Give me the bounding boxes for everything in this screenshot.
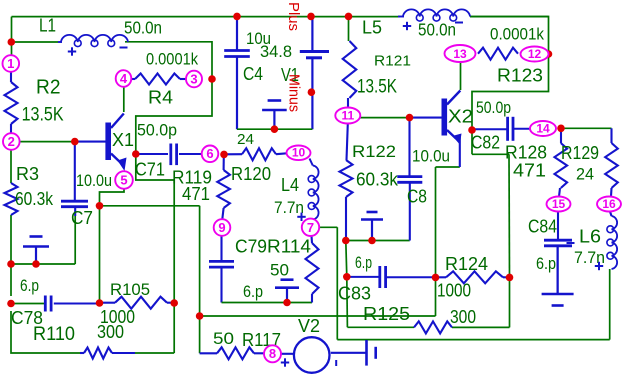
value 50 of R117: [213, 329, 234, 348]
wire mid row y206: [100, 205, 200, 207]
svg-text:34.8: 34.8: [260, 42, 292, 61]
svg-text:R121: R121: [374, 53, 411, 70]
svg-text:14: 14: [536, 121, 550, 135]
wire R3 to bottom left: [10, 215, 12, 296]
capacitor C83: [380, 266, 386, 288]
value 300 of R125: [450, 307, 476, 327]
svg-text:C79: C79: [235, 237, 267, 257]
capacitor C7: [61, 201, 88, 207]
junction dot 2: [71, 138, 79, 146]
svg-text:C82: C82: [471, 133, 500, 153]
junction dot 1: [8, 38, 16, 46]
wire R125 right: [452, 326, 510, 328]
wire R105 left lead: [100, 302, 116, 304]
svg-text:2: 2: [8, 134, 15, 149]
wire node8 to V2: [281, 353, 294, 355]
node 15: [547, 197, 571, 212]
wire x199 down: [199, 206, 201, 353]
junction dot 22: [432, 274, 440, 282]
label L5: [362, 18, 382, 38]
label R119: [172, 168, 212, 188]
polarity + of L6: [595, 262, 603, 270]
svg-text:R128: R128: [505, 143, 547, 163]
svg-text:X2: X2: [448, 107, 473, 127]
label C7: [71, 208, 93, 228]
svg-text:Minus: Minus: [286, 74, 303, 112]
wire node15 to C84: [557, 212, 559, 241]
wire R121 top lead: [348, 16, 350, 41]
svg-text:10.0u: 10.0u: [76, 171, 112, 190]
node 11: [335, 108, 360, 124]
value 50.0n of L5: [418, 20, 456, 40]
svg-text:6.p: 6.p: [536, 254, 556, 273]
wire bottom rail left: [135, 352, 174, 354]
wire base lead X1: [75, 141, 106, 143]
source V2: [294, 337, 330, 373]
wire node1 top lead: [10, 55, 12, 58]
junction dot 23: [506, 274, 514, 282]
junction dot 5: [7, 260, 15, 268]
junction dot 24: [406, 114, 414, 122]
junction dot 18: [271, 125, 279, 133]
wire C4 top stem: [236, 16, 238, 50]
junction dot 25: [468, 126, 476, 134]
svg-text:R4: R4: [148, 88, 173, 108]
label V1: [281, 65, 299, 85]
svg-text:L4: L4: [281, 175, 299, 195]
wire R120 right lead: [276, 152, 287, 155]
wire R114 top lead: [310, 236, 313, 243]
wire x99 down: [99, 206, 101, 303]
junction dot 7: [7, 300, 15, 308]
wire ground rail y264: [11, 263, 75, 265]
label C71: [135, 160, 165, 180]
polarity - of L6: [567, 242, 575, 244]
svg-text:C71: C71: [135, 160, 165, 180]
wire C78 left lead: [11, 303, 45, 305]
svg-text:6.p: 6.p: [243, 282, 263, 301]
svg-text:L6: L6: [579, 227, 601, 247]
wire node1-R2 lead: [10, 71, 12, 83]
svg-text:R110: R110: [33, 324, 75, 345]
resistor R4: [131, 74, 186, 85]
node 16: [597, 197, 621, 212]
label R120: [231, 164, 271, 184]
svg-text:C8: C8: [407, 187, 427, 207]
wire R110 left lead: [80, 352, 84, 354]
wire R124 right lead: [503, 276, 510, 278]
junction dot 27: [545, 50, 553, 58]
wire R124 left lead: [436, 276, 447, 278]
wire x509 upper: [508, 154, 511, 277]
junction dot 19: [342, 237, 350, 245]
wire x610 up to L6: [609, 269, 611, 340]
value 1000 of R105: [100, 307, 135, 327]
label R117: [242, 330, 281, 350]
svg-text:1000: 1000: [437, 281, 471, 301]
value 60.3k of R3: [15, 189, 54, 209]
svg-text:R125: R125: [363, 304, 410, 324]
resistor R2: [5, 82, 18, 124]
label C83: [338, 284, 371, 304]
resistor R114: [306, 243, 319, 294]
svg-text:15: 15: [552, 197, 566, 211]
junction dot 20: [368, 237, 376, 245]
wire node5 exit: [100, 189, 125, 206]
node 2: [3, 133, 20, 150]
svg-text:16: 16: [602, 197, 616, 211]
wire C78 right lead: [54, 303, 100, 305]
svg-text:50: 50: [270, 261, 289, 280]
svg-text:50: 50: [213, 329, 234, 348]
label C84: [528, 217, 557, 237]
svg-text:L5: L5: [362, 18, 382, 38]
wire R119 top lead: [223, 154, 225, 170]
wire R119 bottom lead: [222, 208, 223, 219]
svg-text:1: 1: [7, 56, 14, 71]
wire C71 right lead: [179, 153, 202, 155]
svg-text:6.p: 6.p: [355, 253, 372, 272]
value 0.0001k of R123: [490, 25, 544, 44]
inductor L6: [607, 216, 617, 269]
label R3: [16, 164, 39, 184]
polarity + of L5: [403, 22, 411, 30]
label R2: [36, 77, 61, 99]
junction dot 6: [32, 260, 40, 268]
svg-text:C4: C4: [243, 64, 263, 84]
label C4: [243, 64, 263, 84]
svg-text:60.3k: 60.3k: [15, 189, 54, 209]
label R110: [33, 324, 75, 345]
polarity + of L4: [297, 213, 305, 221]
inductor L4: [308, 166, 318, 220]
wire box2 right: [470, 17, 549, 131]
wire R129 bottom lead: [610, 188, 613, 197]
wire C84 to ground: [557, 246, 559, 294]
value 13.5K of R2: [22, 104, 64, 126]
label R124: [445, 254, 488, 274]
wire gnd row y129: [237, 128, 312, 130]
svg-text:50.0p: 50.0p: [137, 121, 177, 140]
wire C4 lower stem: [236, 57, 238, 129]
wire R129 top lead: [610, 128, 612, 143]
wire bottom rail right: [337, 339, 609, 341]
ground mid right (R122/C8): [361, 212, 383, 241]
wire node14 to R129: [561, 127, 612, 129]
transistor X2: [442, 91, 462, 145]
node 3: [186, 71, 202, 88]
junction dot 8: [170, 299, 178, 307]
label R4: [148, 88, 173, 108]
junction dot 12: [220, 151, 228, 159]
wire node12 lead: [549, 53, 550, 55]
wire V2 to ground: [331, 352, 366, 354]
svg-text:3: 3: [190, 71, 197, 86]
wire x346 down: [346, 241, 348, 328]
svg-text:9: 9: [218, 220, 225, 235]
value 6.p of C84: [536, 254, 556, 273]
svg-text:4: 4: [120, 71, 128, 86]
svg-text:7.7n: 7.7n: [274, 198, 304, 217]
svg-text:X1: X1: [112, 130, 134, 150]
label L6: [579, 227, 601, 247]
wire node11 row: [361, 117, 410, 119]
capacitor C71: [171, 144, 177, 166]
wire y316 long: [200, 315, 436, 317]
inductor L1: [58, 35, 128, 47]
label R128: [505, 143, 547, 163]
wire R122 top lead: [347, 124, 348, 161]
value 60.3k of R122: [356, 170, 399, 190]
polarity + of V2: [281, 358, 289, 366]
node 5: [115, 171, 133, 189]
label R122: [352, 142, 396, 161]
svg-text:300: 300: [450, 307, 476, 327]
label R125: [363, 304, 410, 324]
wire node16 to L6: [610, 212, 612, 217]
svg-text:12: 12: [528, 47, 542, 61]
junction dot 21: [343, 273, 351, 281]
label R129: [561, 143, 599, 163]
node 9: [214, 219, 231, 236]
node 1: [3, 55, 20, 72]
svg-text:24: 24: [576, 165, 594, 184]
junction dot 16: [345, 13, 353, 21]
wire C83 right lead: [386, 276, 436, 278]
junction dot 17: [308, 88, 316, 96]
wire V1 lower stem: [311, 58, 313, 129]
svg-text:24: 24: [237, 132, 254, 148]
wire y154 c82label: [472, 153, 509, 155]
wire node4 stem: [123, 86, 125, 112]
label X2: [448, 107, 473, 127]
svg-text:13: 13: [453, 47, 467, 61]
svg-text:Plus: Plus: [285, 2, 302, 31]
junction dot 14: [233, 13, 241, 21]
node 8: [264, 345, 281, 362]
resistor R105: [115, 297, 167, 309]
resistor R122: [340, 160, 353, 197]
wire L4 to node7: [311, 219, 312, 221]
value 300 of R110: [97, 322, 124, 342]
svg-text:10.0u: 10.0u: [412, 147, 450, 166]
svg-text:13.5K: 13.5K: [357, 77, 397, 98]
svg-text:50.0n: 50.0n: [418, 20, 456, 40]
wire R117 lead left: [200, 352, 217, 354]
value 1000 of R124: [437, 281, 471, 301]
label L4: [281, 175, 299, 195]
wire node13 stem: [460, 62, 462, 90]
label R121: [374, 53, 411, 70]
svg-text:R105: R105: [110, 280, 150, 299]
node 4: [116, 70, 132, 87]
resistor R120: [242, 148, 276, 160]
wire node2 row to base: [20, 141, 76, 143]
wire node7 row: [319, 226, 337, 228]
ground right of V2: [367, 340, 376, 366]
capacitor C78: [45, 296, 51, 312]
resistor R110: [84, 348, 112, 359]
svg-text:R114: R114: [267, 237, 311, 257]
resistor R119: [217, 170, 230, 208]
ground below C84: [542, 246, 574, 306]
wire C8 lower stem: [409, 182, 411, 240]
resistor R129: [605, 143, 618, 188]
capacitor C8: [397, 177, 422, 183]
node 6: [202, 146, 219, 163]
junction dot 11: [208, 75, 216, 83]
value 10.0u of C8: [412, 147, 450, 166]
ground below C7: [23, 237, 49, 265]
wire R128 bottom lead: [559, 188, 560, 197]
label C8: [407, 187, 427, 207]
junction dot 3: [96, 202, 104, 210]
wire V1 top stem: [311, 16, 313, 51]
ground mid (C4/V1): [262, 101, 287, 130]
node 10: [287, 146, 311, 161]
value 0.0001k of R4: [146, 50, 198, 69]
svg-text:5: 5: [120, 173, 127, 188]
transistor X1: [105, 114, 126, 172]
svg-text:6.p: 6.p: [20, 276, 39, 295]
svg-text:L1: L1: [39, 16, 56, 36]
value 10.0u of C7: [76, 171, 112, 190]
capacitor C82: [472, 117, 531, 141]
wire y240 gnd row: [346, 240, 410, 242]
label R105: [110, 280, 150, 299]
wire y302 row: [222, 302, 313, 304]
battery V1: [300, 52, 329, 58]
value 50 of R114: [270, 261, 289, 280]
svg-text:C84: C84: [528, 217, 557, 237]
value 6.p of C83: [355, 253, 372, 272]
svg-text:60.3k: 60.3k: [356, 170, 399, 190]
ground below R114 row: [275, 280, 299, 303]
inductor L5: [398, 9, 470, 21]
wire x472 dot down: [471, 130, 473, 154]
polarity - of L1: [120, 47, 128, 49]
svg-text:1000: 1000: [100, 307, 135, 327]
node 7: [302, 219, 319, 236]
svg-text:R123: R123: [497, 66, 543, 86]
resistor R128: [555, 143, 568, 188]
label C79: [235, 237, 267, 257]
junction dot 15: [307, 13, 315, 21]
label Minus (rotated): [286, 74, 303, 112]
svg-text:R122: R122: [352, 142, 396, 161]
label C78: [11, 308, 43, 328]
svg-text:6: 6: [206, 146, 213, 161]
svg-text:13.5K: 13.5K: [22, 104, 64, 126]
value 7.7n of L4: [274, 198, 304, 217]
svg-text:471: 471: [182, 184, 210, 204]
wire left rail top: [11, 17, 13, 56]
wire emitter2 routing: [436, 166, 460, 168]
wire y327 to R125: [347, 326, 414, 328]
label X1: [112, 130, 134, 150]
wire x435 up: [435, 167, 437, 316]
value 6.p of C79: [243, 282, 263, 301]
svg-text:C7: C7: [71, 208, 93, 228]
value 34.8 at V1: [260, 42, 292, 61]
wire R105 right lead: [167, 302, 174, 304]
node 13: [445, 45, 476, 62]
wire top rail: [12, 16, 549, 18]
value 7.7n of L6: [574, 248, 605, 267]
resistor R117: [217, 347, 254, 359]
svg-text:R120: R120: [231, 164, 271, 184]
svg-text:50.0p: 50.0p: [476, 98, 511, 117]
svg-text:7.7n: 7.7n: [574, 248, 605, 267]
svg-text:7: 7: [307, 220, 314, 235]
capacitor C84: [544, 240, 572, 246]
resistor R121: [343, 41, 357, 98]
wire base lead X2: [410, 117, 442, 119]
resistor R124: [446, 271, 503, 283]
value 13.5K of R121: [357, 77, 397, 98]
svg-text:10: 10: [292, 146, 306, 160]
svg-text:8: 8: [269, 346, 276, 361]
wire feedback box R4/C71: [125, 42, 212, 353]
wire L1 row: [12, 41, 59, 43]
wire emitter2 lead: [459, 135, 461, 167]
wire x337 down: [336, 227, 338, 339]
polarity - of V2: [335, 360, 337, 366]
wire C83 left lead: [347, 276, 380, 278]
junction dot 4: [96, 299, 104, 307]
label Plus (rotated): [285, 2, 302, 31]
svg-text:0.0001k: 0.0001k: [490, 25, 544, 44]
wire R110 right lead: [112, 352, 135, 354]
value 50.0p of C71: [137, 121, 177, 140]
svg-text:11: 11: [341, 109, 354, 123]
polarity + of L1: [68, 47, 76, 55]
svg-text:0.0001k: 0.0001k: [146, 50, 198, 69]
svg-text:R3: R3: [16, 164, 39, 184]
svg-text:R129: R129: [561, 143, 599, 163]
junction dot 26: [557, 125, 565, 133]
wire C79 lower stem: [220, 267, 222, 302]
wire R117 to node8: [254, 352, 264, 354]
wire R121 bottom lead: [347, 98, 349, 108]
value 24 of R129: [576, 165, 594, 184]
wire R114 bottom lead: [311, 294, 313, 303]
svg-text:50.0n: 50.0n: [124, 18, 162, 38]
value 471 of R128: [513, 161, 546, 181]
label L1: [39, 16, 56, 36]
wire R120 left lead: [224, 153, 242, 155]
wire C71 left lead: [138, 153, 168, 155]
value 24 of V1: [237, 132, 254, 148]
junction dot 13: [283, 299, 291, 307]
capacitor C4: [224, 51, 250, 57]
value 6.p of C78: [20, 276, 39, 295]
svg-text:R2: R2: [36, 77, 61, 99]
value 50.0p of C82: [476, 98, 511, 117]
resistor R3: [5, 183, 18, 215]
resistor R123: [478, 48, 518, 60]
wire R2-node2 lead: [10, 124, 12, 134]
junction dot 9: [196, 312, 204, 320]
value 50.0n of L1: [124, 18, 162, 38]
value 471 of R119: [182, 184, 210, 204]
label R123: [497, 66, 543, 86]
wire R122 bottom lead: [345, 197, 347, 241]
wire C7 stem upper: [74, 142, 76, 201]
label C82: [471, 133, 500, 153]
label R114: [267, 237, 311, 257]
value 10u of C4: [246, 29, 271, 48]
